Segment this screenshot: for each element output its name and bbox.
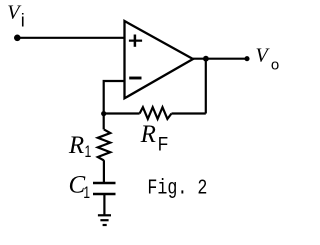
wire	[205, 59, 207, 114]
label RF	[140, 121, 168, 155]
label Vo	[256, 44, 280, 73]
wire	[193, 58, 247, 60]
wire	[17, 37, 124, 39]
capacitor C1	[93, 183, 116, 194]
svg-text:R: R	[68, 132, 84, 159]
node output junction	[203, 56, 209, 62]
node Vi input terminal	[14, 35, 21, 42]
resistor R1	[98, 129, 111, 160]
node Vo terminal	[244, 56, 249, 61]
svg-text:o: o	[271, 57, 279, 74]
wire	[103, 160, 105, 183]
label Vi	[7, 1, 25, 30]
svg-text:R: R	[140, 121, 156, 148]
svg-text:1: 1	[83, 184, 90, 202]
ground	[98, 215, 111, 225]
wire	[103, 114, 105, 130]
svg-text:Fig. 2: Fig. 2	[147, 178, 207, 201]
label R1	[68, 132, 91, 162]
resistor RF	[140, 107, 172, 119]
node A junction	[101, 111, 106, 116]
wire	[104, 81, 125, 114]
label C1	[69, 172, 91, 203]
wire	[103, 194, 105, 215]
svg-text:F: F	[158, 132, 168, 154]
wire	[172, 112, 206, 114]
wire	[104, 112, 140, 114]
svg-text:i: i	[21, 11, 25, 31]
svg-text:1: 1	[85, 143, 92, 161]
op-amp U1	[125, 21, 194, 98]
